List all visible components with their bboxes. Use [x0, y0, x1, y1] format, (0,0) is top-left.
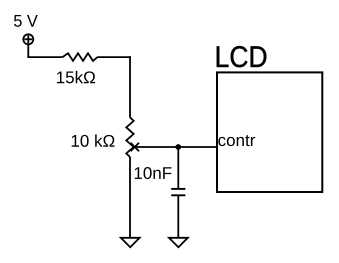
wire potentiometer bottom to ground	[129, 157, 131, 238]
junction node	[175, 144, 181, 150]
LCD module U1 box	[217, 72, 322, 192]
wire junction down to capacitor C1	[177, 147, 179, 188]
pin label contr	[218, 135, 255, 146]
wire resistor to corner	[98, 56, 131, 58]
wire corner down to potentiometer	[129, 56, 131, 117]
resistor R1 15k zigzag	[63, 53, 98, 61]
ground symbol left	[121, 238, 140, 247]
wire to resistor R1	[27, 56, 62, 58]
power supply terminal (+)	[23, 34, 33, 44]
wire from supply down	[27, 44, 29, 58]
ground symbol right	[169, 238, 188, 247]
potentiometer wiper arrow	[131, 143, 139, 151]
label 10nF	[135, 167, 172, 179]
label 15kΩ	[57, 71, 95, 83]
wire capacitor to ground	[177, 195, 179, 237]
label 5 V	[14, 15, 38, 27]
capacitor C1 plates	[171, 189, 185, 195]
label LCD	[217, 46, 267, 67]
wire from wiper to LCD pin	[134, 146, 218, 148]
label 10 kΩ	[72, 134, 115, 146]
potentiometer R2 zigzag	[126, 117, 133, 157]
